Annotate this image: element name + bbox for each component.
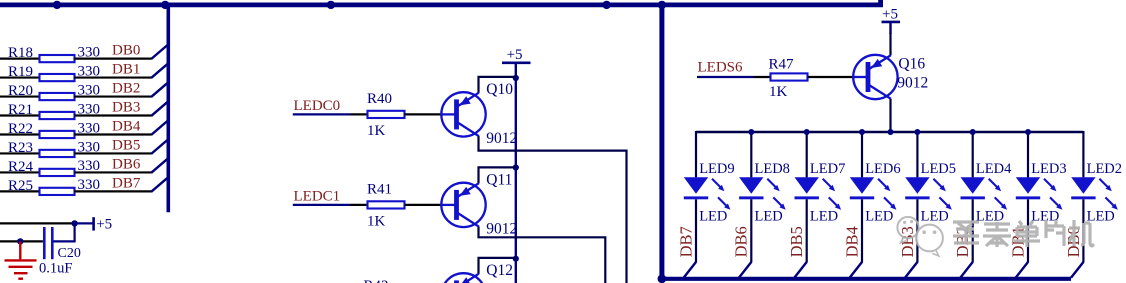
svg-text:C20: C20 (58, 246, 81, 261)
svg-text:LEDC0: LEDC0 (294, 98, 341, 114)
wire LED9 anode (695, 131, 697, 177)
LED LED2 (1071, 161, 1122, 225)
wire R25 row left (0, 190, 39, 192)
LED LED4 (961, 161, 1013, 225)
wire LEDC0 to R40 (351, 113, 369, 115)
resistor R22 330 (8, 120, 100, 138)
svg-text:0.1uF: 0.1uF (39, 261, 72, 277)
svg-text:R24: R24 (8, 159, 34, 175)
wire R19 row right (75, 76, 152, 78)
wire LEDC1 to R41 (351, 204, 369, 206)
svg-text:LED: LED (865, 209, 893, 225)
junction Q16 collector / anode rail (888, 129, 894, 135)
net label LEDC0 (294, 98, 341, 114)
junction anode rail col 1 (748, 129, 754, 135)
svg-text:DB2: DB2 (112, 81, 140, 97)
junction on top bus at x57 (53, 1, 61, 9)
resistor R21 330 (8, 101, 100, 119)
power port +5 transistor rail (502, 47, 531, 78)
svg-text:R19: R19 (8, 64, 33, 80)
wire LED8 anode (750, 131, 752, 177)
bus entry DB5 bottom (794, 262, 806, 278)
wire R40 to Q10 base (405, 113, 442, 115)
wire R24 row right (75, 171, 152, 173)
svg-text:9012: 9012 (486, 221, 517, 238)
wire R22 row right (75, 133, 152, 135)
wire Q11 emitter to +5 rail (479, 167, 516, 183)
bus entry DB6 (151, 159, 167, 173)
svg-text:R25: R25 (8, 178, 33, 194)
svg-text:LED: LED (755, 209, 783, 225)
wire LED6 cathode (861, 199, 863, 262)
bus entry DB7 bottom (684, 262, 696, 278)
junction anode rail col 5 (970, 129, 976, 135)
wire LED4 cathode (972, 199, 974, 262)
svg-text:LED8: LED8 (755, 161, 790, 177)
net label DB6 vertical (732, 226, 751, 257)
ground symbol (5, 241, 37, 278)
svg-text:R21: R21 (8, 102, 33, 118)
net label DB4 (112, 118, 141, 134)
bus entry DB2 bottom (960, 262, 972, 278)
svg-text:LED: LED (921, 209, 949, 225)
net label DB1 (112, 62, 140, 78)
bus entry DB4 bottom (850, 262, 862, 278)
net label DB7 (112, 175, 141, 191)
wire LED6 anode (861, 131, 863, 177)
wire LED8 cathode (750, 199, 752, 262)
resistor R24 330 (8, 158, 100, 176)
wire +5 to Q16 emitter (889, 33, 891, 55)
resistor R18 330 (8, 44, 100, 62)
svg-text:DB7: DB7 (112, 175, 141, 191)
svg-text:DB3: DB3 (112, 100, 140, 116)
junction on top bus at x165 (161, 1, 169, 9)
net label DB1 vertical (1008, 226, 1027, 257)
junction top bus to LED return rail (658, 1, 666, 9)
transistor Q10 9012 (441, 81, 517, 147)
net label DB2 (112, 81, 140, 97)
bus entry DB3 bottom (905, 262, 917, 278)
wire LEDC1 stub (293, 204, 351, 206)
wire R18 row left (0, 57, 39, 59)
svg-text:Q11: Q11 (486, 172, 512, 189)
LED LED7 (795, 161, 846, 225)
power port +5 bottom-left (75, 217, 113, 233)
svg-text:1K: 1K (367, 123, 386, 139)
bus LED return rail bottom (659, 277, 1071, 281)
wire LED4 anode (972, 131, 974, 177)
wire R25 row right (75, 190, 152, 192)
svg-text:LED: LED (976, 209, 1004, 225)
wire R19 row left (0, 76, 39, 78)
bus vertical DB bus (167, 3, 171, 213)
wire LEDS6 stub (697, 76, 754, 78)
wire LED5 cathode (916, 199, 918, 262)
watermark logo (897, 217, 942, 256)
svg-text:DB6: DB6 (112, 156, 141, 172)
net label DB4 vertical (842, 226, 861, 257)
svg-text:LED9: LED9 (699, 161, 734, 177)
net label DB5 vertical (787, 226, 806, 257)
wire Q10 collector run (479, 136, 627, 283)
power port +5 Q16 (882, 6, 901, 34)
svg-text:DB0: DB0 (112, 43, 140, 59)
wire +5 rail bottom-left (0, 222, 75, 224)
resistor R20 330 (8, 82, 100, 100)
resistor R40 1K (367, 91, 405, 139)
wire LED3 cathode (1027, 199, 1029, 262)
wire LEDC0 stub (293, 113, 351, 115)
net label DB0 (112, 43, 140, 59)
wire R20 row left (0, 95, 39, 97)
junction on top bus at x331 (327, 1, 335, 9)
svg-text:LEDC1: LEDC1 (294, 189, 341, 205)
wire LED2 anode (1082, 131, 1084, 177)
svg-text:Q12: Q12 (486, 262, 513, 279)
bus entry DB2 (151, 83, 167, 97)
net label DB3 (112, 100, 140, 116)
junction Q12 emitter / rail (513, 256, 519, 262)
net label LEDC1 (294, 189, 341, 205)
wire R41 to Q11 base (405, 204, 442, 206)
wire R22 row left (0, 133, 39, 135)
bus entry DB5 (151, 140, 167, 154)
net label DB5 (112, 137, 140, 153)
wire Q16 collector to LED rail (889, 99, 891, 133)
svg-text:+5: +5 (507, 47, 523, 63)
resistor R47 1K (769, 56, 808, 100)
bus top horizontal +5 rail (0, 0, 881, 5)
junction on top bus at x607 (602, 1, 610, 9)
LED LED3 (1016, 161, 1067, 225)
svg-text:LED2: LED2 (1087, 161, 1122, 177)
bus entry DB3 (151, 102, 167, 116)
resistor R41 1K (367, 182, 405, 230)
svg-text:+5: +5 (96, 217, 112, 233)
svg-text:DB5: DB5 (787, 226, 806, 257)
wire LED7 anode (806, 131, 808, 177)
wire C20 to +5 (54, 223, 75, 241)
svg-text:LED7: LED7 (810, 161, 845, 177)
wire LED5 anode (916, 131, 918, 177)
junction return rail corner (658, 274, 667, 283)
bus entry DB7 (151, 178, 167, 192)
wire R20 row right (75, 95, 152, 97)
svg-text:1K: 1K (769, 84, 788, 100)
svg-text:R42: R42 (364, 278, 389, 283)
junction +5 wire / C20 (71, 220, 77, 226)
svg-text:9012: 9012 (897, 75, 928, 92)
junction ground wire (17, 238, 23, 244)
wire LED9 cathode (695, 199, 697, 262)
svg-text:9012: 9012 (486, 130, 517, 147)
wire emitter rail vertical (515, 78, 517, 283)
svg-text:R41: R41 (367, 182, 392, 198)
watermark text (953, 220, 1094, 247)
bus entry DB0 (151, 45, 167, 59)
svg-text:DB6: DB6 (732, 226, 751, 257)
junction anode rail col 6 (1025, 129, 1031, 135)
LED LED9 (684, 161, 735, 225)
net label LEDS6 (698, 60, 744, 76)
svg-text:LED4: LED4 (976, 161, 1012, 177)
wire R23 row left (0, 152, 39, 154)
svg-text:1K: 1K (367, 214, 386, 230)
LED LED6 (850, 161, 901, 225)
svg-text:R47: R47 (769, 56, 795, 72)
wire Q11 collector run (479, 226, 606, 283)
svg-text:R23: R23 (8, 140, 33, 156)
wire Q10 emitter to +5 rail (479, 77, 516, 93)
bus entry DB6 bottom (739, 262, 751, 278)
transistor Q16 9012 (853, 55, 928, 99)
svg-text:R20: R20 (8, 83, 33, 99)
wire LED3 anode (1027, 131, 1029, 177)
resistor R42 label (364, 278, 389, 283)
transistor Q12 9012 (441, 262, 517, 283)
wire LED2 cathode (1082, 199, 1084, 262)
capacitor C20 0.1uF (39, 227, 81, 277)
svg-text:DB7: DB7 (676, 226, 695, 257)
svg-text:R18: R18 (8, 45, 33, 61)
net label DB6 (112, 156, 141, 172)
wire LED7 cathode (806, 199, 808, 262)
wire LED anode rail (696, 131, 1083, 133)
LED LED8 (739, 161, 790, 225)
bus entry DB4 (151, 121, 167, 135)
net label DB3 vertical (898, 226, 917, 257)
wire R23 row right (75, 152, 152, 154)
svg-text:+5: +5 (882, 6, 898, 22)
svg-text:DB4: DB4 (112, 118, 141, 134)
bus LED return rail left vertical (659, 3, 664, 279)
wire R21 row right (75, 114, 152, 116)
svg-text:LED: LED (1087, 209, 1115, 225)
junction anode rail col 3 (859, 129, 865, 135)
svg-text:DB5: DB5 (112, 137, 140, 153)
junction Q10 emitter / +5 rail (513, 75, 519, 81)
svg-text:R40: R40 (367, 91, 392, 107)
wire ground net bottom-left (0, 240, 43, 242)
bus entry DB0 bottom (1071, 262, 1083, 278)
svg-text:R22: R22 (8, 121, 33, 137)
svg-text:LED5: LED5 (921, 161, 956, 177)
net label DB7 vertical (676, 226, 695, 257)
LED LED5 (905, 161, 956, 225)
svg-text:LEDS6: LEDS6 (698, 60, 744, 76)
svg-text:LED: LED (810, 209, 838, 225)
net label DB2 vertical (953, 226, 972, 257)
wire LEDS6 to R47 (754, 76, 772, 78)
svg-text:LED3: LED3 (1031, 161, 1066, 177)
wire R21 row left (0, 114, 39, 116)
wire R47 to Q16 base (808, 76, 853, 78)
junction anode rail col 2 (804, 129, 810, 135)
net label DB0 vertical (1064, 226, 1083, 257)
wire Q12 emitter to +5 rail (479, 258, 516, 274)
transistor Q11 9012 (441, 172, 517, 238)
resistor R23 330 (8, 139, 100, 157)
resistor R19 330 (8, 63, 100, 81)
wire R24 row left (0, 171, 39, 173)
svg-text:DB1: DB1 (112, 62, 140, 78)
svg-text:Q16: Q16 (898, 56, 925, 73)
bus entry DB1 bottom (1016, 262, 1028, 278)
wire R18 row right (75, 57, 152, 59)
svg-text:Q10: Q10 (486, 81, 513, 98)
resistor R25 330 (8, 177, 100, 195)
svg-text:LED: LED (699, 209, 727, 225)
junction Q11 emitter / rail (513, 164, 519, 170)
junction anode rail col 4 (914, 129, 920, 135)
svg-text:DB4: DB4 (842, 226, 861, 257)
bus entry DB1 (151, 64, 167, 78)
svg-text:LED6: LED6 (865, 161, 900, 177)
